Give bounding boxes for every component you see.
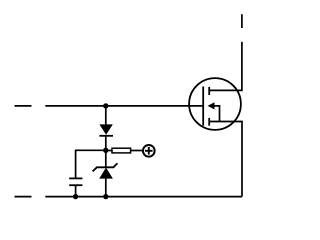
node (zener branch on bottom rail) [103,194,108,199]
node symbol (circled plus test point) [143,145,155,157]
wire (bottom-left dashed stub of bottom rail) [15,196,32,198]
wire (mid node down to zener cathode) [105,150,107,166]
wire (drain lead: tick right then up) [209,42,242,91]
zener diode Z1 (cathode up with bent bar, anode down) [93,163,118,178]
wire (bottom rail to MOSFET source) [45,196,242,198]
resistor R1 (series gate resistor to test point) [108,148,142,153]
wire (junction down to diode D1 anode) [105,106,107,125]
transistor Q1 (N-channel MOSFET, enclosed) [189,78,241,130]
wire (gate rail to MOSFET gate) [45,105,203,107]
source contact tick [208,118,210,126]
wire (top-left dashed stub of gate rail) [15,105,32,107]
body-to-source tie wire [214,106,220,122]
diode D1 (anode up, cathode down) [99,124,113,135]
node (mid junction: D1 / zener / capacitor branch / resistor branch) [103,148,108,153]
body arrow (points left toward channel) [208,102,215,109]
wire (source lead: tick right then down to bottom rail) [209,122,242,197]
node (junction of gate rail and clamp branch) [103,103,108,108]
wire (zener anode to bottom rail) [105,179,107,197]
mosfet body circle [189,78,241,130]
capacitor C1 [69,178,82,196]
drain contact tick [208,87,210,95]
wire (mid node left to capacitor branch) [76,150,106,177]
node (capacitor to bottom rail) [73,194,78,199]
gate bar [202,87,204,126]
wire (top-right dashed stub of drain lead) [241,14,243,28]
wire (D1 cathode to mid node) [105,136,107,151]
